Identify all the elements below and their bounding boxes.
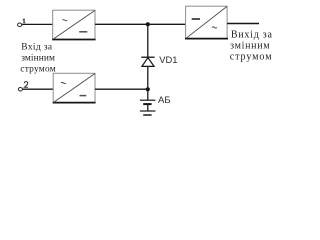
- wire: U1 to node A and inverter U3: [95, 23, 186, 25]
- wire: diode VD1 anode to node B: [147, 66, 149, 89]
- svg-text:струмом: струмом: [230, 52, 273, 63]
- node B (junction dot): [146, 87, 150, 91]
- text: AC output caption: [230, 29, 273, 62]
- svg-text:змінним: змінним: [21, 54, 55, 64]
- battery АБ (accumulator, two cells): [140, 100, 156, 115]
- svg-text:змінним: змінним: [230, 40, 270, 51]
- svg-text:Вихід за: Вихід за: [231, 29, 273, 40]
- rectifier U1 (AC/DC converter): [52, 10, 95, 39]
- AC symbol (~) in U2: [61, 82, 66, 83]
- inverter U3 (DC/AC converter): [185, 6, 228, 38]
- svg-text:Вхід за: Вхід за: [21, 42, 53, 52]
- DC symbol (=) in U2: [80, 95, 87, 97]
- diode VD1: [141, 57, 154, 66]
- wire: U2 to node B: [95, 88, 148, 90]
- terminal 2: [18, 87, 22, 91]
- DC symbol (=) in U1: [79, 31, 87, 33]
- wire: node A down to diode VD1 cathode: [147, 24, 149, 57]
- charger U2 (AC/DC converter): [53, 73, 96, 102]
- node A (junction dot): [146, 22, 150, 26]
- svg-text:струмом: струмом: [20, 65, 56, 75]
- DC symbol (=) in U3: [192, 18, 200, 20]
- wire: U3 output: [227, 23, 259, 25]
- wire: terminal 1 to rectifier U1: [22, 23, 53, 25]
- svg-text:VD1: VD1: [159, 54, 177, 65]
- svg-text:АБ: АБ: [158, 95, 171, 106]
- wire: node B to battery: [147, 89, 149, 100]
- AC symbol (~) in U3: [212, 27, 217, 28]
- pin label 1: [23, 19, 25, 23]
- text: AC input caption: [20, 42, 56, 74]
- terminal 1: [18, 23, 22, 27]
- AC symbol (~) in U1: [62, 20, 67, 21]
- wire: terminal 2 to charger U2: [23, 88, 54, 90]
- pin label 2: [24, 82, 28, 88]
